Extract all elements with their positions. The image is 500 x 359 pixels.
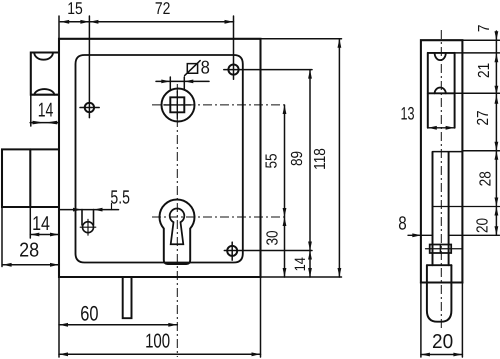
svg-text:5.5: 5.5 <box>110 187 130 208</box>
svg-text:118: 118 <box>312 148 329 170</box>
svg-text:21: 21 <box>476 63 493 78</box>
svg-text:20: 20 <box>474 218 491 233</box>
svg-text:15: 15 <box>67 0 83 18</box>
svg-text:14: 14 <box>38 99 54 121</box>
svg-text:100: 100 <box>145 331 170 353</box>
svg-text:28: 28 <box>477 171 494 186</box>
svg-text:14: 14 <box>292 257 309 271</box>
svg-text:89: 89 <box>289 151 306 166</box>
svg-text:14: 14 <box>32 213 50 235</box>
svg-text:72: 72 <box>155 0 171 18</box>
svg-text:20: 20 <box>432 331 453 353</box>
svg-text:28: 28 <box>19 240 39 262</box>
svg-text:7: 7 <box>476 25 493 33</box>
svg-text:60: 60 <box>80 303 98 326</box>
svg-text:55: 55 <box>264 153 281 168</box>
svg-text:27: 27 <box>475 110 492 125</box>
svg-text:13: 13 <box>400 104 414 124</box>
svg-text:30: 30 <box>264 230 281 245</box>
svg-text:8: 8 <box>201 57 210 78</box>
svg-text:8: 8 <box>398 214 406 235</box>
